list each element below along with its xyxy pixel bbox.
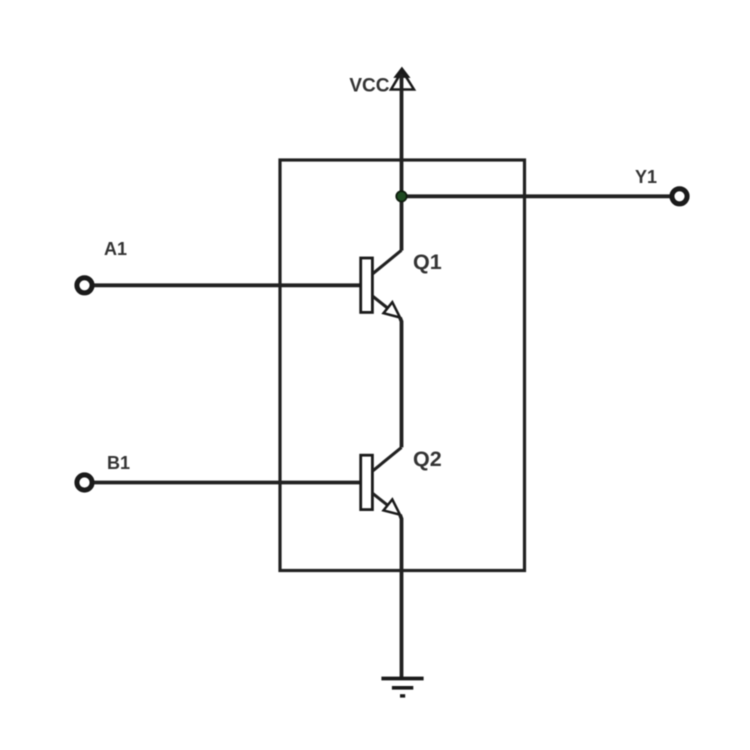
wire node to Q1 collector	[400, 196, 404, 250]
terminal B1	[77, 475, 92, 490]
svg-text:Q1: Q1	[413, 250, 442, 274]
wire Q1 emitter to Q2 collector	[400, 318, 402, 448]
wire node to Y1	[402, 194, 671, 198]
power symbol VCC	[391, 67, 414, 89]
ground	[381, 679, 423, 696]
wire A1 to Q1 base	[94, 283, 361, 287]
IC outline box	[280, 160, 525, 571]
svg-text:Q2: Q2	[413, 447, 442, 471]
wire VCC to node	[400, 74, 404, 196]
svg-text:VCC: VCC	[349, 76, 389, 97]
svg-text:B1: B1	[107, 453, 130, 473]
wire Q2 emitter to ground	[400, 515, 402, 679]
wire B1 to Q2 base	[94, 481, 361, 485]
svg-text:Y1: Y1	[635, 167, 657, 187]
node junction dot	[396, 191, 406, 201]
svg-text:A1: A1	[104, 239, 127, 259]
transistor Q1	[361, 250, 402, 317]
terminal A1	[77, 278, 92, 293]
terminal Y1	[672, 189, 687, 204]
transistor Q2	[361, 447, 402, 514]
